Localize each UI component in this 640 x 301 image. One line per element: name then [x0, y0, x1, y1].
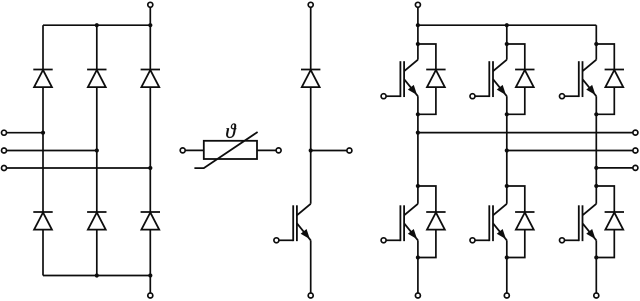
- wire rectifier DC- stub: [149, 276, 151, 296]
- diode D1: [33, 70, 52, 88]
- node leg3 lower cell bottom: [594, 255, 598, 259]
- wire rectifier leg1 middle: [42, 87, 44, 212]
- diode D5: [87, 212, 106, 230]
- wire leg1 upper IGBT collector: [417, 44, 419, 60]
- wire rectifier leg2 upper: [96, 25, 98, 69]
- terminal chopper gate: [274, 238, 279, 243]
- transistor T7 chopper IGBT: [278, 204, 310, 241]
- wire leg2 upper IGBT emitter: [506, 96, 508, 114]
- node DC+ rail leg3: [148, 23, 152, 27]
- node leg3 lower cell top: [594, 184, 598, 188]
- wire AC input L2: [4, 150, 97, 152]
- wire rectifier DC- rail: [43, 275, 150, 277]
- wire leg1 phase column: [417, 114, 419, 186]
- node DC+ rail leg2: [95, 23, 99, 27]
- transistor T31 upper IGBT: [564, 60, 596, 97]
- node leg1 upper cell top: [416, 42, 420, 46]
- terminal AC L3: [2, 166, 7, 171]
- wire leg1 lower diode branch: [418, 186, 436, 212]
- wire leg1 lower IGBT collector: [417, 186, 419, 204]
- wire leg2 upper IGBT collector: [506, 44, 508, 60]
- node leg3 phase: [594, 166, 598, 170]
- terminal gate T31: [560, 94, 565, 99]
- wire chopper emitter: [310, 240, 312, 295]
- wire leg1 upper diode return: [418, 87, 436, 114]
- wire phase output U1: [418, 132, 636, 134]
- wire phase output U3: [596, 167, 635, 169]
- terminal chopper collector: [308, 2, 313, 7]
- node leg1 phase: [416, 131, 420, 135]
- wire leg2 lower IGBT emitter: [506, 240, 508, 257]
- terminal gate T12: [381, 238, 386, 243]
- wire leg3 lower IGBT emitter: [595, 240, 597, 257]
- wire leg2 collector top: [506, 25, 508, 44]
- wire leg2 lower diode return: [507, 230, 525, 258]
- transistor T11 upper IGBT: [386, 60, 418, 97]
- wire thermistor left lead: [183, 149, 204, 151]
- terminal phase U1: [633, 130, 638, 135]
- terminal AC L2: [2, 148, 7, 153]
- thermistor diagonal stroke: [194, 132, 257, 168]
- wire chopper mid: [310, 87, 312, 204]
- wire AC input L3: [4, 167, 150, 169]
- wire leg2 phase column: [506, 114, 508, 186]
- terminal phase U2: [633, 148, 638, 153]
- node leg3 upper cell bottom: [594, 112, 598, 116]
- wire leg3 upper diode branch: [596, 44, 614, 70]
- node L1-leg1: [41, 131, 45, 135]
- node rail leg1: [416, 23, 420, 27]
- thermistor RT body: [204, 141, 257, 159]
- node rail leg2: [505, 23, 509, 27]
- wire rectifier leg1 lower: [42, 230, 44, 276]
- node leg2 upper cell bottom: [505, 112, 509, 116]
- terminal thermistor left: [180, 148, 185, 153]
- terminal thermistor right: [276, 148, 281, 153]
- node DC- rail leg3: [148, 273, 152, 277]
- wire leg1 lower IGBT emitter: [417, 240, 419, 257]
- node L3-leg3: [148, 166, 152, 170]
- transistor T21 upper IGBT: [475, 60, 507, 97]
- wire chopper top stub: [310, 5, 312, 70]
- wire leg3 phase column: [595, 114, 597, 186]
- wire leg3 lower IGBT collector: [595, 186, 597, 204]
- terminal chopper output: [347, 148, 352, 153]
- wire rectifier leg3 middle: [149, 87, 151, 212]
- diode D2: [87, 70, 106, 88]
- terminal AC L1: [2, 130, 7, 135]
- wire leg2 lower diode branch: [507, 186, 525, 212]
- node leg1 lower cell bottom: [416, 255, 420, 259]
- wire leg3 lower diode return: [596, 230, 614, 258]
- wire rectifier leg3 lower: [149, 230, 151, 276]
- terminal gate T32: [560, 238, 565, 243]
- terminal emitter leg3: [594, 293, 599, 298]
- terminal chopper emitter: [308, 293, 313, 298]
- wire leg3 emitter stub: [595, 258, 597, 296]
- diode D7 chopper: [301, 70, 320, 88]
- terminal gate T21: [470, 94, 475, 99]
- wire rectifier DC+ stub: [149, 5, 151, 25]
- terminal phase U3: [633, 165, 638, 170]
- transistor T12 lower IGBT: [386, 204, 418, 241]
- wire leg3 upper diode return: [596, 87, 614, 114]
- wire leg1 collector top: [417, 25, 419, 44]
- diode D21 freewheel upper: [515, 70, 534, 88]
- wire phase output U2: [507, 150, 636, 152]
- node leg1 lower cell top: [416, 184, 420, 188]
- wire leg3 collector top: [595, 25, 597, 44]
- wire leg2 upper diode branch: [507, 44, 525, 70]
- node leg1 upper cell bottom: [416, 112, 420, 116]
- transistor T32 lower IGBT: [564, 204, 596, 241]
- node leg3 upper cell top: [594, 42, 598, 46]
- diode D31 freewheel upper: [605, 70, 624, 88]
- diode D32 freewheel lower: [605, 212, 624, 230]
- diode D4: [33, 212, 52, 230]
- wire inverter DC+ rail: [418, 24, 596, 26]
- wire leg2 lower IGBT collector: [506, 186, 508, 204]
- transistor T22 lower IGBT: [475, 204, 507, 241]
- terminal emitter leg2: [504, 293, 509, 298]
- diode D3: [141, 70, 160, 88]
- terminal rectifier DC+: [148, 2, 153, 7]
- diode D6: [141, 212, 160, 230]
- node L2-leg2: [95, 148, 99, 152]
- terminal gate T11: [381, 94, 386, 99]
- wire leg1 upper IGBT emitter: [417, 96, 419, 114]
- node leg2 lower cell bottom: [505, 255, 509, 259]
- wire AC input L1: [4, 132, 43, 134]
- wire leg3 lower diode branch: [596, 186, 614, 212]
- diode D11 freewheel upper: [426, 70, 445, 88]
- wire rectifier leg3 upper: [149, 25, 151, 69]
- wire leg3 upper IGBT collector: [595, 44, 597, 60]
- diode D22 freewheel lower: [515, 212, 534, 230]
- node chopper output: [309, 148, 313, 152]
- terminal emitter leg1: [415, 293, 420, 298]
- wire leg1 emitter stub: [417, 258, 419, 296]
- wire inverter DC+ stub: [417, 5, 419, 25]
- wire leg2 emitter stub: [506, 258, 508, 296]
- wire rectifier leg2 middle: [96, 87, 98, 212]
- label theta: [226, 124, 236, 138]
- terminal inverter DC+: [415, 2, 420, 7]
- diode D12 freewheel lower: [426, 212, 445, 230]
- wire chopper output: [311, 150, 350, 152]
- wire leg3 upper IGBT emitter: [595, 96, 597, 114]
- wire leg1 upper diode branch: [418, 44, 436, 70]
- terminal gate T22: [470, 238, 475, 243]
- wire rectifier leg2 lower: [96, 230, 98, 276]
- node leg2 upper cell top: [505, 42, 509, 46]
- terminal rectifier DC-: [148, 293, 153, 298]
- wire leg1 lower diode return: [418, 230, 436, 258]
- wire leg2 upper diode return: [507, 87, 525, 114]
- node leg2 phase: [505, 148, 509, 152]
- wire rectifier leg1 upper: [42, 25, 44, 69]
- wire rectifier DC+ rail: [43, 24, 150, 26]
- node DC- rail leg2: [95, 273, 99, 277]
- node leg2 lower cell top: [505, 184, 509, 188]
- wire thermistor right lead: [257, 149, 279, 151]
